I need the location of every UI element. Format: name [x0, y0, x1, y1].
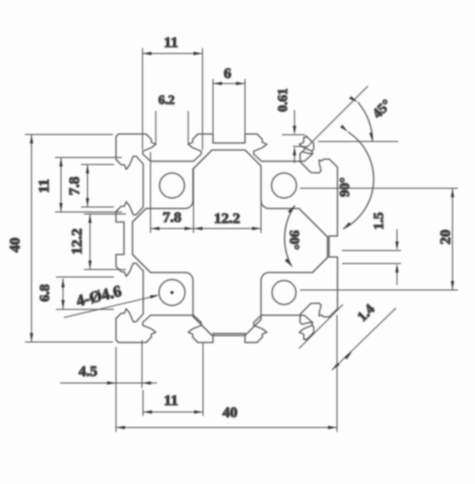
dim 7.8 and 12.2 horizontal: [151, 228, 262, 230]
hole bottom-right: [272, 281, 296, 305]
dim 6.2 top slot opening: [155, 111, 157, 145]
svg-text:11: 11: [164, 35, 178, 51]
dim 12.2 left web: [89, 214, 91, 270]
svg-text:12.2: 12.2: [214, 211, 240, 227]
svg-text:90°: 90°: [286, 230, 301, 250]
hole top-left: [160, 173, 185, 198]
svg-text:7.8: 7.8: [67, 177, 83, 196]
svg-text:6.2: 6.2: [158, 92, 174, 107]
svg-text:0.61: 0.61: [275, 88, 290, 112]
hole bottom-left 4-dia4.6: [159, 280, 185, 306]
dim 11 top slot cavity width: [143, 53, 203, 55]
dim 20 slot pitch right: [452, 188, 454, 290]
dim 1.5 groove depth: [342, 250, 401, 252]
svg-text:11: 11: [37, 179, 53, 193]
svg-text:4.5: 4.5: [79, 364, 98, 380]
svg-text:6: 6: [224, 66, 232, 82]
dim 40 overall height: [31, 135, 33, 343]
dim 7.8 left slot opening: [87, 165, 89, 208]
dim 11 left slot cavity: [60, 158, 62, 213]
svg-text:4-Ø4.6: 4-Ø4.6: [75, 283, 123, 310]
svg-text:90°: 90°: [338, 177, 353, 197]
dim 90 deg V-slot angle right: [343, 132, 374, 229]
dim 6 top center groove width: [213, 83, 245, 85]
dim 90 deg V angle centre: [285, 206, 295, 267]
dim 0.61 slot lip step: [282, 134, 305, 136]
svg-text:6.8: 6.8: [38, 284, 53, 302]
svg-text:12.2: 12.2: [70, 228, 86, 254]
svg-text:1.4: 1.4: [355, 302, 378, 325]
dim 1.4 corner chamfer: [332, 308, 396, 370]
aluminium profile outer boundary with T-slots: [116, 134, 338, 343]
dim 45 deg corner chamfer angle: [300, 86, 368, 154]
dim 6.8: [62, 279, 64, 310]
dim 4.5 edge to slot: [60, 382, 157, 384]
svg-text:40: 40: [8, 238, 24, 253]
dim 40 overall width: [116, 427, 337, 429]
svg-text:7.8: 7.8: [163, 210, 182, 226]
svg-text:11: 11: [164, 393, 178, 409]
svg-text:20: 20: [438, 230, 454, 245]
label 4-dia4.6 holes: [64, 296, 158, 318]
center cavity: [133, 150, 328, 336]
hole top-right: [272, 173, 297, 198]
svg-text:1.5: 1.5: [372, 212, 387, 230]
svg-text:40: 40: [223, 405, 238, 421]
dim 11 bottom slot: [143, 411, 203, 413]
svg-text:45°: 45°: [370, 97, 394, 121]
